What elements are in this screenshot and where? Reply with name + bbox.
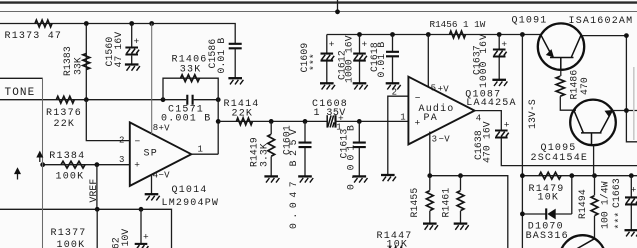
label SP	[144, 149, 158, 160]
capacitor C1637	[471, 34, 507, 88]
svg-text:22K: 22K	[54, 119, 76, 130]
node junction C1601	[303, 119, 308, 124]
wire top bus line 1	[0, 1, 637, 3]
svg-text:LM2904PW: LM2904PW	[162, 198, 220, 209]
svg-text:−V: −V	[159, 170, 171, 180]
svg-text:R1376: R1376	[46, 108, 82, 119]
svg-text:R1455: R1455	[409, 188, 420, 218]
capacitor C1560	[104, 32, 140, 68]
svg-text:0.01 B: 0.01 B	[376, 42, 387, 78]
wire VREF rail	[0, 209, 172, 248]
svg-text:+: +	[362, 39, 368, 50]
wire PA pin4 output	[475, 111, 502, 131]
wire Q1091 collector	[582, 36, 637, 142]
capacitor C1562	[111, 229, 149, 248]
wire PA pin2 to ground	[388, 88, 409, 175]
svg-text:−: −	[415, 92, 421, 103]
svg-text:SP: SP	[144, 149, 158, 160]
svg-text:R1373 47: R1373 47	[5, 31, 63, 42]
node junction D1070 left	[520, 212, 525, 217]
svg-text:10K: 10K	[538, 193, 560, 204]
transistor Q bottom partial	[560, 235, 606, 248]
block edge gray	[633, 67, 635, 140]
ground C1609	[320, 83, 335, 89]
wire C1638 bottom	[501, 138, 637, 166]
resistor R1383	[62, 46, 90, 76]
ground C1637	[492, 80, 507, 86]
svg-text:+: +	[143, 232, 149, 243]
svg-text:+V: +V	[159, 124, 171, 134]
resistor R1406	[172, 55, 208, 82]
diode D1070	[526, 208, 569, 242]
wire op-amp pin4 -V	[152, 170, 171, 193]
capacitor C1608	[312, 99, 348, 133]
svg-text:1: 1	[198, 144, 204, 154]
svg-text:R1494: R1494	[577, 189, 588, 219]
wire VREF	[88, 165, 99, 210]
arrow signal up on TONE edge	[36, 151, 43, 162]
svg-text:PA: PA	[424, 113, 438, 124]
node junction C1618	[390, 32, 395, 37]
svg-text:C1663: C1663	[611, 178, 622, 208]
resistor R1419	[249, 134, 275, 167]
node junction feedback right	[216, 97, 221, 102]
node junction R1383	[84, 21, 89, 26]
resistor R1456	[430, 19, 486, 38]
node junction C1560	[129, 21, 134, 26]
svg-text:Q1014: Q1014	[172, 185, 208, 196]
node junction C1637	[497, 32, 502, 37]
svg-text:0.01 B: 0.01 B	[216, 38, 227, 74]
svg-text:100 1/4W: 100 1/4W	[600, 181, 611, 229]
svg-text:13V-S: 13V-S	[527, 99, 538, 129]
wire C1562 branch	[140, 209, 142, 243]
svg-text:1000 16V: 1000 16V	[478, 34, 489, 88]
svg-text:C1613: C1613	[339, 129, 350, 159]
node junction C1613	[357, 119, 362, 124]
resistor R1373	[5, 20, 63, 42]
svg-text:2SC4154E: 2SC4154E	[531, 153, 589, 164]
wire R1414 net	[218, 120, 327, 122]
svg-text:VREF: VREF	[88, 179, 99, 203]
capacitor C1571	[161, 95, 211, 125]
svg-text:100K: 100K	[56, 172, 85, 183]
wire Q1095 base	[593, 145, 595, 176]
capacitor C1638	[473, 120, 510, 163]
svg-text:+: +	[415, 118, 421, 129]
svg-text:4: 4	[153, 170, 159, 180]
ground R1455	[423, 224, 438, 230]
resistor R1384	[49, 151, 85, 183]
svg-text:470: 470	[579, 77, 590, 95]
capacitor C1612	[337, 35, 368, 84]
wire C1586 to ground	[234, 49, 236, 78]
node junction output/R1414	[216, 119, 221, 124]
wire 13V-S	[522, 35, 538, 248]
ground C1560	[125, 65, 140, 71]
svg-text:***: ***	[309, 53, 320, 71]
svg-text:R1486: R1486	[569, 70, 580, 100]
node junction 13V-S rail	[520, 173, 525, 178]
wire C1613 branch	[358, 121, 360, 176]
node junction VREF	[95, 162, 100, 167]
node junction D1070 right	[569, 173, 574, 178]
label Q1087	[465, 89, 516, 109]
svg-text:+: +	[134, 36, 140, 47]
wire vertical stub to bus 2	[335, 0, 340, 14]
svg-text:100K: 100K	[57, 240, 86, 248]
node junction R1461	[458, 173, 463, 178]
ground PA pin2	[381, 175, 396, 181]
svg-text:3.3K: 3.3K	[259, 143, 270, 167]
transistor Q1095	[531, 100, 616, 164]
wire Q1095 emitter	[612, 110, 637, 112]
svg-text:+: +	[134, 159, 140, 170]
svg-text:BAS316: BAS316	[526, 231, 569, 242]
resistor R1414	[224, 99, 260, 125]
resistor R1447 label	[377, 231, 413, 248]
node junction input/R1383	[84, 97, 89, 102]
wire bias rail	[522, 175, 637, 177]
resistor R1455	[409, 176, 433, 223]
svg-text:3: 3	[432, 135, 438, 145]
block TONE box	[0, 78, 43, 248]
ground R1461	[454, 224, 469, 230]
svg-text:4: 4	[476, 114, 482, 124]
ground C1601	[298, 176, 313, 182]
resistor R1479	[529, 172, 565, 203]
ground C1612	[353, 83, 368, 89]
wire -V rail	[431, 176, 508, 248]
svg-text:22K: 22K	[232, 108, 254, 119]
svg-text:TONE: TONE	[5, 87, 36, 99]
node junction op-amp +V	[149, 21, 154, 26]
svg-text:ISA1602AM: ISA1602AM	[569, 16, 634, 27]
node junction emitter bus	[624, 108, 629, 113]
node junction TONE/R1384	[40, 162, 45, 167]
ground C1613	[353, 176, 368, 182]
label Q1014	[162, 185, 220, 209]
wire R1419 branch	[270, 121, 272, 176]
transistor Q1091	[512, 16, 634, 71]
svg-text:33K: 33K	[180, 64, 202, 75]
svg-text:+: +	[631, 184, 637, 195]
ground C1586	[228, 78, 243, 84]
svg-text:−V: −V	[439, 135, 451, 145]
resistor R1377 label	[51, 228, 87, 248]
capacitor C1609	[299, 35, 335, 83]
op-amp U Q1014 triangle	[130, 122, 192, 185]
resistor R1461	[440, 176, 464, 223]
svg-text:R1377: R1377	[51, 228, 87, 239]
node junction 13V-S	[520, 32, 525, 37]
ground R1419	[264, 176, 279, 182]
wire C1560 branch	[131, 24, 133, 64]
ground op-amp pin4	[145, 194, 160, 200]
svg-text:1: 1	[400, 113, 406, 123]
capacitor C1663	[611, 176, 637, 230]
capacitor C1601	[281, 125, 311, 229]
wire PA pin5 +V	[428, 35, 449, 95]
ground C1663	[625, 230, 637, 236]
wire Q1091 base to R1486	[560, 70, 562, 76]
resistor R1486	[556, 70, 590, 111]
wire op-amp pin2 inverting	[86, 100, 130, 146]
wire R1373 net	[0, 24, 235, 44]
node junction C1663	[629, 173, 634, 178]
resistor R1494	[577, 176, 611, 239]
node junction C1562	[139, 207, 144, 212]
svg-text:Q1091: Q1091	[512, 16, 548, 27]
resistor R1376	[46, 96, 82, 130]
arrow signal up left	[14, 167, 21, 179]
svg-text:***: ***	[614, 212, 625, 230]
label minus PA	[415, 92, 421, 103]
wire op-amp pin8 +V	[152, 24, 170, 135]
label plus PA	[415, 118, 421, 129]
capacitor C1613	[339, 125, 366, 190]
svg-text:3: 3	[119, 155, 125, 165]
svg-text:+: +	[329, 39, 335, 50]
svg-text:1000 16V: 1000 16V	[343, 35, 354, 83]
wire power rail	[327, 34, 541, 36]
node junction R1377	[95, 207, 100, 212]
capacitor C1618	[369, 35, 399, 83]
svg-text:1 35V: 1 35V	[314, 108, 347, 119]
wire input net	[0, 99, 218, 101]
label Audio PA	[419, 103, 455, 124]
node junction R1419	[269, 119, 274, 124]
svg-text:LA4425A: LA4425A	[466, 98, 516, 109]
svg-text:10V: 10V	[120, 229, 131, 247]
wire C1608 to PA pin1	[336, 113, 409, 123]
capacitor C1586	[207, 38, 242, 74]
svg-text:47 16V: 47 16V	[113, 32, 124, 68]
svg-text:R1456 1 1W: R1456 1 1W	[430, 19, 486, 30]
svg-text:R1384: R1384	[49, 151, 85, 162]
node junction Q1091 collector bus	[624, 33, 629, 38]
svg-text:2: 2	[119, 136, 125, 146]
ground C1618	[386, 83, 401, 89]
svg-text:33K: 33K	[72, 57, 83, 75]
wire R1494 to transistor	[594, 238, 596, 240]
node junction feedback left	[161, 97, 166, 102]
wire D1070 branch	[522, 176, 571, 214]
amp U Q1087 triangle	[408, 77, 474, 145]
wire op-amp pin3 R1384 net	[43, 155, 130, 165]
node junction C1612	[357, 32, 362, 37]
wire feedback loop	[163, 78, 218, 154]
label plus SP	[134, 159, 140, 170]
svg-text:−: −	[135, 136, 141, 147]
svg-text:R1461: R1461	[440, 188, 451, 218]
wire C1601 branch	[304, 121, 306, 176]
svg-text:+: +	[501, 39, 507, 50]
wire R1383 branch	[85, 24, 87, 100]
node junction Q1095 base	[592, 173, 597, 178]
wire PA pin3 -V	[430, 132, 450, 176]
svg-text:470 16V: 470 16V	[482, 121, 493, 163]
wire op-amp output pin1	[191, 144, 218, 154]
label minus SP	[135, 136, 141, 147]
wire top bus line 2	[0, 11, 637, 13]
wire R1377 branch	[96, 209, 98, 248]
node junction R1455	[427, 173, 432, 178]
node junction PA +V	[426, 32, 431, 37]
svg-text:+: +	[504, 120, 510, 131]
